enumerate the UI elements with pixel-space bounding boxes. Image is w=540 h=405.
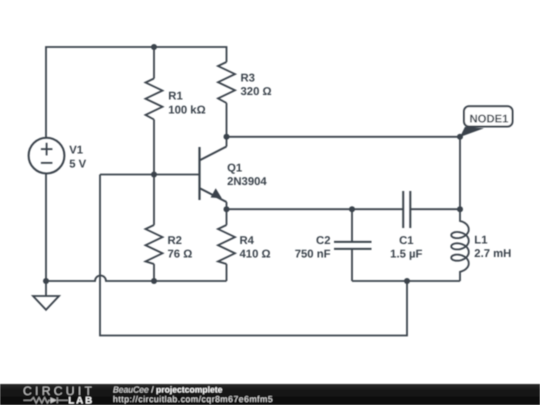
ground [33,281,59,310]
wire C2 bottom [351,249,353,281]
svg-text:410 Ω: 410 Ω [240,249,271,261]
svg-text:2N3904: 2N3904 [227,176,267,188]
footer bar [0,384,540,405]
svg-text:R2: R2 [168,235,182,247]
node base junction [151,172,157,178]
svg-text:Q1: Q1 [227,162,242,174]
node NODE1 junction [457,134,463,140]
svg-text:R4: R4 [240,235,255,247]
svg-text:C2: C2 [316,235,330,247]
inductor L1 [451,209,468,281]
wire collector to NODE1 [227,136,461,138]
transistor Q1 [199,137,226,209]
node collector [224,134,230,140]
svg-text:R1: R1 [168,90,182,102]
wire base [100,174,199,176]
wire R2 bottom [153,264,155,281]
node R2 bottom [151,278,157,284]
wire R2 top [153,175,155,226]
node emitter [224,206,230,212]
svg-text:LAB: LAB [68,395,94,405]
wire C2 top [351,209,353,242]
svg-text:2.7 mH: 2.7 mH [474,248,511,260]
svg-text:C1: C1 [399,235,413,247]
resistor R1 [146,79,163,120]
wire tank bottom [352,280,460,282]
wire feedback left vertical [100,175,407,336]
wire emitter to tank [227,208,353,210]
resistor R2 [146,225,163,264]
node ground junction [43,278,49,284]
svg-text:5 V: 5 V [69,158,86,170]
wire R1 top [153,47,155,79]
svg-text:76 Ω: 76 Ω [168,249,193,261]
wire V1 bottom [45,174,47,281]
voltage source V1 [29,138,65,174]
svg-text:NODE1: NODE1 [470,113,509,125]
svg-text:750 nF: 750 nF [295,249,331,261]
svg-text:V1: V1 [69,145,83,157]
node tank bottom junction [404,278,410,284]
wire R4 top [226,209,228,225]
wire R3 bottom [226,103,228,137]
svg-text:L1: L1 [474,235,487,247]
wire to C1 [352,208,403,210]
svg-text:320 Ω: 320 Ω [241,86,272,98]
wire C1 to L1 [410,208,460,210]
resistor R4 [218,225,235,264]
svg-text:1.5 µF: 1.5 µF [390,249,422,261]
flag NODE1 [460,106,513,137]
node C2 top [349,206,355,212]
logo resistor-diode squiggle [24,397,69,403]
node tank right [457,206,463,212]
wire ground rail with hop [46,276,227,282]
svg-text:http://circuitlab.com/cqr8m67e: http://circuitlab.com/cqr8m67e6mfm5 [113,394,273,404]
capacitor C2 [334,242,372,249]
svg-text:100 kΩ: 100 kΩ [168,105,205,117]
wire NODE1 down [459,137,461,209]
wire R4 bottom [226,264,228,281]
resistor R3 [218,62,235,103]
node top R1 junction [151,44,157,50]
wire top rail [46,47,227,138]
wire R1 bottom [153,120,155,176]
svg-text:R3: R3 [241,73,255,85]
capacitor C1 [403,191,410,228]
